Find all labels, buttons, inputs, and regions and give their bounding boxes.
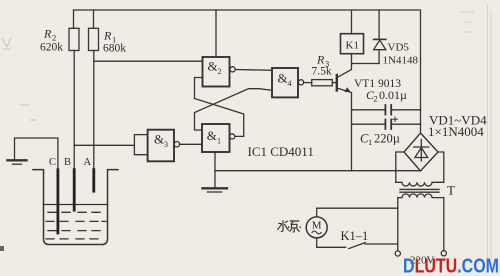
nand-gate U4 output bubble bbox=[298, 80, 303, 85]
wire: primary right lead to mains terminal bbox=[443, 198, 445, 251]
svg-text:R: R bbox=[43, 27, 52, 41]
label pump 水泵 bbox=[277, 220, 300, 232]
nand-gate U4 (&4) box bbox=[272, 68, 298, 97]
wire: C2 right bbox=[391, 109, 420, 111]
wire: U4 output to R3 bbox=[304, 82, 312, 84]
wire: VD5 anode lead bbox=[378, 50, 380, 64]
svg-text:1×1N4004: 1×1N4004 bbox=[428, 124, 484, 139]
water dashes row1 bbox=[48, 211, 100, 213]
svg-text:220µ: 220µ bbox=[374, 132, 400, 146]
wire: primary left lead to mains terminal bbox=[397, 198, 399, 251]
terminal left 220V bbox=[395, 251, 400, 256]
svg-text:1: 1 bbox=[368, 137, 372, 147]
svg-text:1: 1 bbox=[217, 137, 221, 146]
wire: rail drop to VD5 bbox=[378, 10, 380, 39]
resistor R3 bbox=[312, 80, 333, 86]
wire: VD5 anode link bbox=[352, 63, 380, 65]
wire: U1 bottom to ground bbox=[214, 152, 216, 187]
wire: bridge right AC to transformer secondary bbox=[438, 152, 444, 182]
svg-text:A: A bbox=[84, 157, 92, 168]
capacitor C1 plates bbox=[384, 120, 386, 130]
electrode C bar bbox=[57, 170, 60, 233]
transformer T secondary winding bbox=[396, 182, 444, 186]
wire: U3 input tie bracket bbox=[134, 135, 147, 155]
wire: cross-couple to U1 upper input bbox=[195, 89, 273, 130]
svg-text:4: 4 bbox=[288, 79, 292, 88]
C1 polarity plus bbox=[393, 117, 398, 122]
electrode A bar bbox=[92, 170, 95, 192]
svg-text:2: 2 bbox=[374, 94, 378, 104]
switch K1-1 arm bbox=[349, 243, 365, 249]
svg-text:K1–1: K1–1 bbox=[341, 229, 369, 243]
wire: pump bottom to switch bbox=[317, 238, 346, 247]
wire: node B to gate U3 inputs bbox=[74, 144, 134, 146]
wire: R1 bottom to electrode A bbox=[93, 51, 95, 170]
water dashes row3 bbox=[48, 230, 100, 232]
svg-text:3: 3 bbox=[164, 140, 168, 149]
bridge inner diode bbox=[414, 140, 429, 162]
nand-gate U1 (&1) box bbox=[202, 124, 230, 152]
earth ground bar bbox=[8, 159, 27, 161]
svg-text:DLUTU.COM: DLUTU.COM bbox=[403, 256, 499, 276]
transformer T primary winding bbox=[398, 194, 444, 198]
wire: C1 left bbox=[352, 123, 386, 125]
wire: ground bus from U1 ground to bridge minus bbox=[215, 170, 421, 172]
svg-text:R: R bbox=[316, 53, 325, 67]
electrode B bar bbox=[73, 170, 76, 211]
motor tilde bbox=[312, 231, 321, 234]
wire: top V+ rail with right drop to bridge bbox=[74, 10, 421, 132]
nand-gate U3 (&3) box bbox=[148, 130, 174, 162]
terminal right 220V bbox=[441, 251, 446, 256]
svg-text:R: R bbox=[103, 29, 112, 43]
svg-text:&: & bbox=[278, 70, 288, 85]
wire: rail drop to relay K1 bbox=[351, 10, 353, 34]
wire: emitter rail down to ground bus bbox=[351, 93, 353, 171]
svg-text:M: M bbox=[312, 220, 322, 232]
svg-text:2: 2 bbox=[218, 67, 222, 76]
svg-text:C: C bbox=[49, 157, 56, 168]
transistor VT1 collector bbox=[338, 64, 352, 77]
svg-text:VD5: VD5 bbox=[388, 42, 410, 54]
wire: K1 bottom to collector node bbox=[351, 54, 353, 64]
svg-text:K1: K1 bbox=[346, 40, 359, 52]
svg-text:680k: 680k bbox=[103, 43, 126, 55]
wire: C2 left bbox=[352, 109, 386, 111]
svg-text:7.5k: 7.5k bbox=[312, 66, 332, 78]
wire: R2 bottom to electrode B bbox=[73, 51, 75, 170]
wire: cross-couple U1 output to U2 input bbox=[195, 99, 244, 137]
wire: U2 lower input stub bbox=[195, 78, 203, 99]
svg-text:&: & bbox=[154, 131, 164, 146]
capacitor C2 plates bbox=[384, 105, 386, 115]
wire: switch to mains left bbox=[365, 243, 398, 245]
svg-text:1N4148: 1N4148 bbox=[383, 55, 419, 67]
resistor R1 bbox=[89, 28, 99, 50]
motor M pump bbox=[306, 217, 327, 238]
transistor VT1 emitter bbox=[338, 88, 352, 92]
water surface line bbox=[44, 204, 108, 206]
svg-text:&: & bbox=[208, 59, 218, 74]
transistor VT1 emitter arrow bbox=[344, 87, 351, 92]
wire: U2 output to U4 input bbox=[235, 69, 272, 72]
svg-text:&: & bbox=[207, 128, 217, 143]
svg-text:T: T bbox=[447, 183, 455, 198]
wire: drop rail to R1 bbox=[93, 10, 95, 28]
svg-text:0.01µ: 0.01µ bbox=[379, 88, 407, 102]
wire: node A to gate U2 input bbox=[94, 60, 203, 62]
bridge rectifier VD1-VD4 diamond bbox=[404, 133, 438, 171]
transformer core bbox=[400, 189, 439, 192]
wire: C1 right bbox=[391, 123, 420, 125]
nand-gate U2 (&2) box bbox=[203, 57, 230, 87]
water tank body bbox=[33, 170, 118, 245]
wire: drop rail to R2 bbox=[73, 10, 75, 28]
wire: R3 to VT1 base bbox=[332, 82, 336, 84]
wire: bridge left AC to transformer secondary bbox=[396, 152, 404, 182]
wire: rail drop to gate U2 top bbox=[215, 10, 217, 57]
water dashes row2 bbox=[46, 220, 106, 222]
transistor VT1 base bar bbox=[336, 75, 338, 91]
nand-gate U3 output bubble bbox=[174, 142, 179, 147]
wire: electrode C to earth ground bbox=[15, 138, 58, 170]
svg-text:B: B bbox=[64, 157, 71, 168]
diode VD5 bbox=[374, 38, 386, 40]
ground under U1 bbox=[203, 187, 228, 189]
resistor R2 bbox=[69, 28, 79, 50]
relay K1 box bbox=[341, 34, 364, 54]
nand-gate U1 output bubble bbox=[230, 134, 235, 139]
wire: U3 output to U1 lower input bbox=[180, 143, 202, 145]
nand-gate U2 output bubble bbox=[230, 67, 235, 72]
wire: pump top to transformer primary left bbox=[317, 208, 398, 217]
svg-text:620k: 620k bbox=[40, 42, 63, 54]
water dashes row4 bbox=[46, 238, 98, 240]
svg-text:IC1 CD4011: IC1 CD4011 bbox=[248, 144, 314, 159]
